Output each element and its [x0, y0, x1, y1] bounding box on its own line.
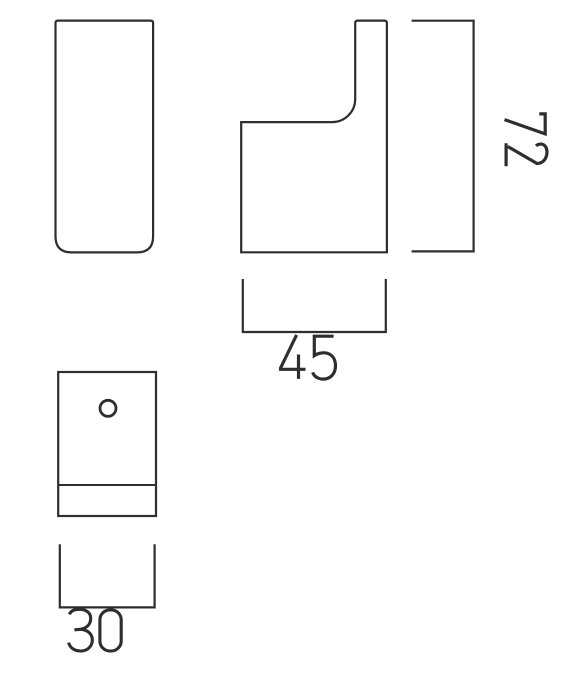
dimension label 45 — [279, 335, 336, 379]
digit 5 — [313, 336, 336, 379]
screw hole circle — [100, 400, 116, 416]
digit 4 — [279, 335, 306, 379]
top view: plate rectangle — [58, 372, 156, 516]
dimension bracket 45 (below profile) — [243, 279, 386, 332]
dimension label 30 — [69, 609, 122, 651]
digit 0 — [100, 610, 121, 651]
front view: rounded rectangle body — [56, 21, 154, 253]
dimension label 72 (rotated) — [505, 114, 547, 166]
digit 7 — [505, 114, 546, 134]
digit 2 — [506, 143, 547, 166]
side profile view: hook L-shape with fillet — [241, 21, 387, 253]
digit 3 — [69, 609, 93, 651]
top view inner line — [58, 484, 156, 486]
dimension bracket 30 (bottom) — [60, 544, 155, 607]
dimension bracket 72 (right) — [412, 21, 474, 252]
